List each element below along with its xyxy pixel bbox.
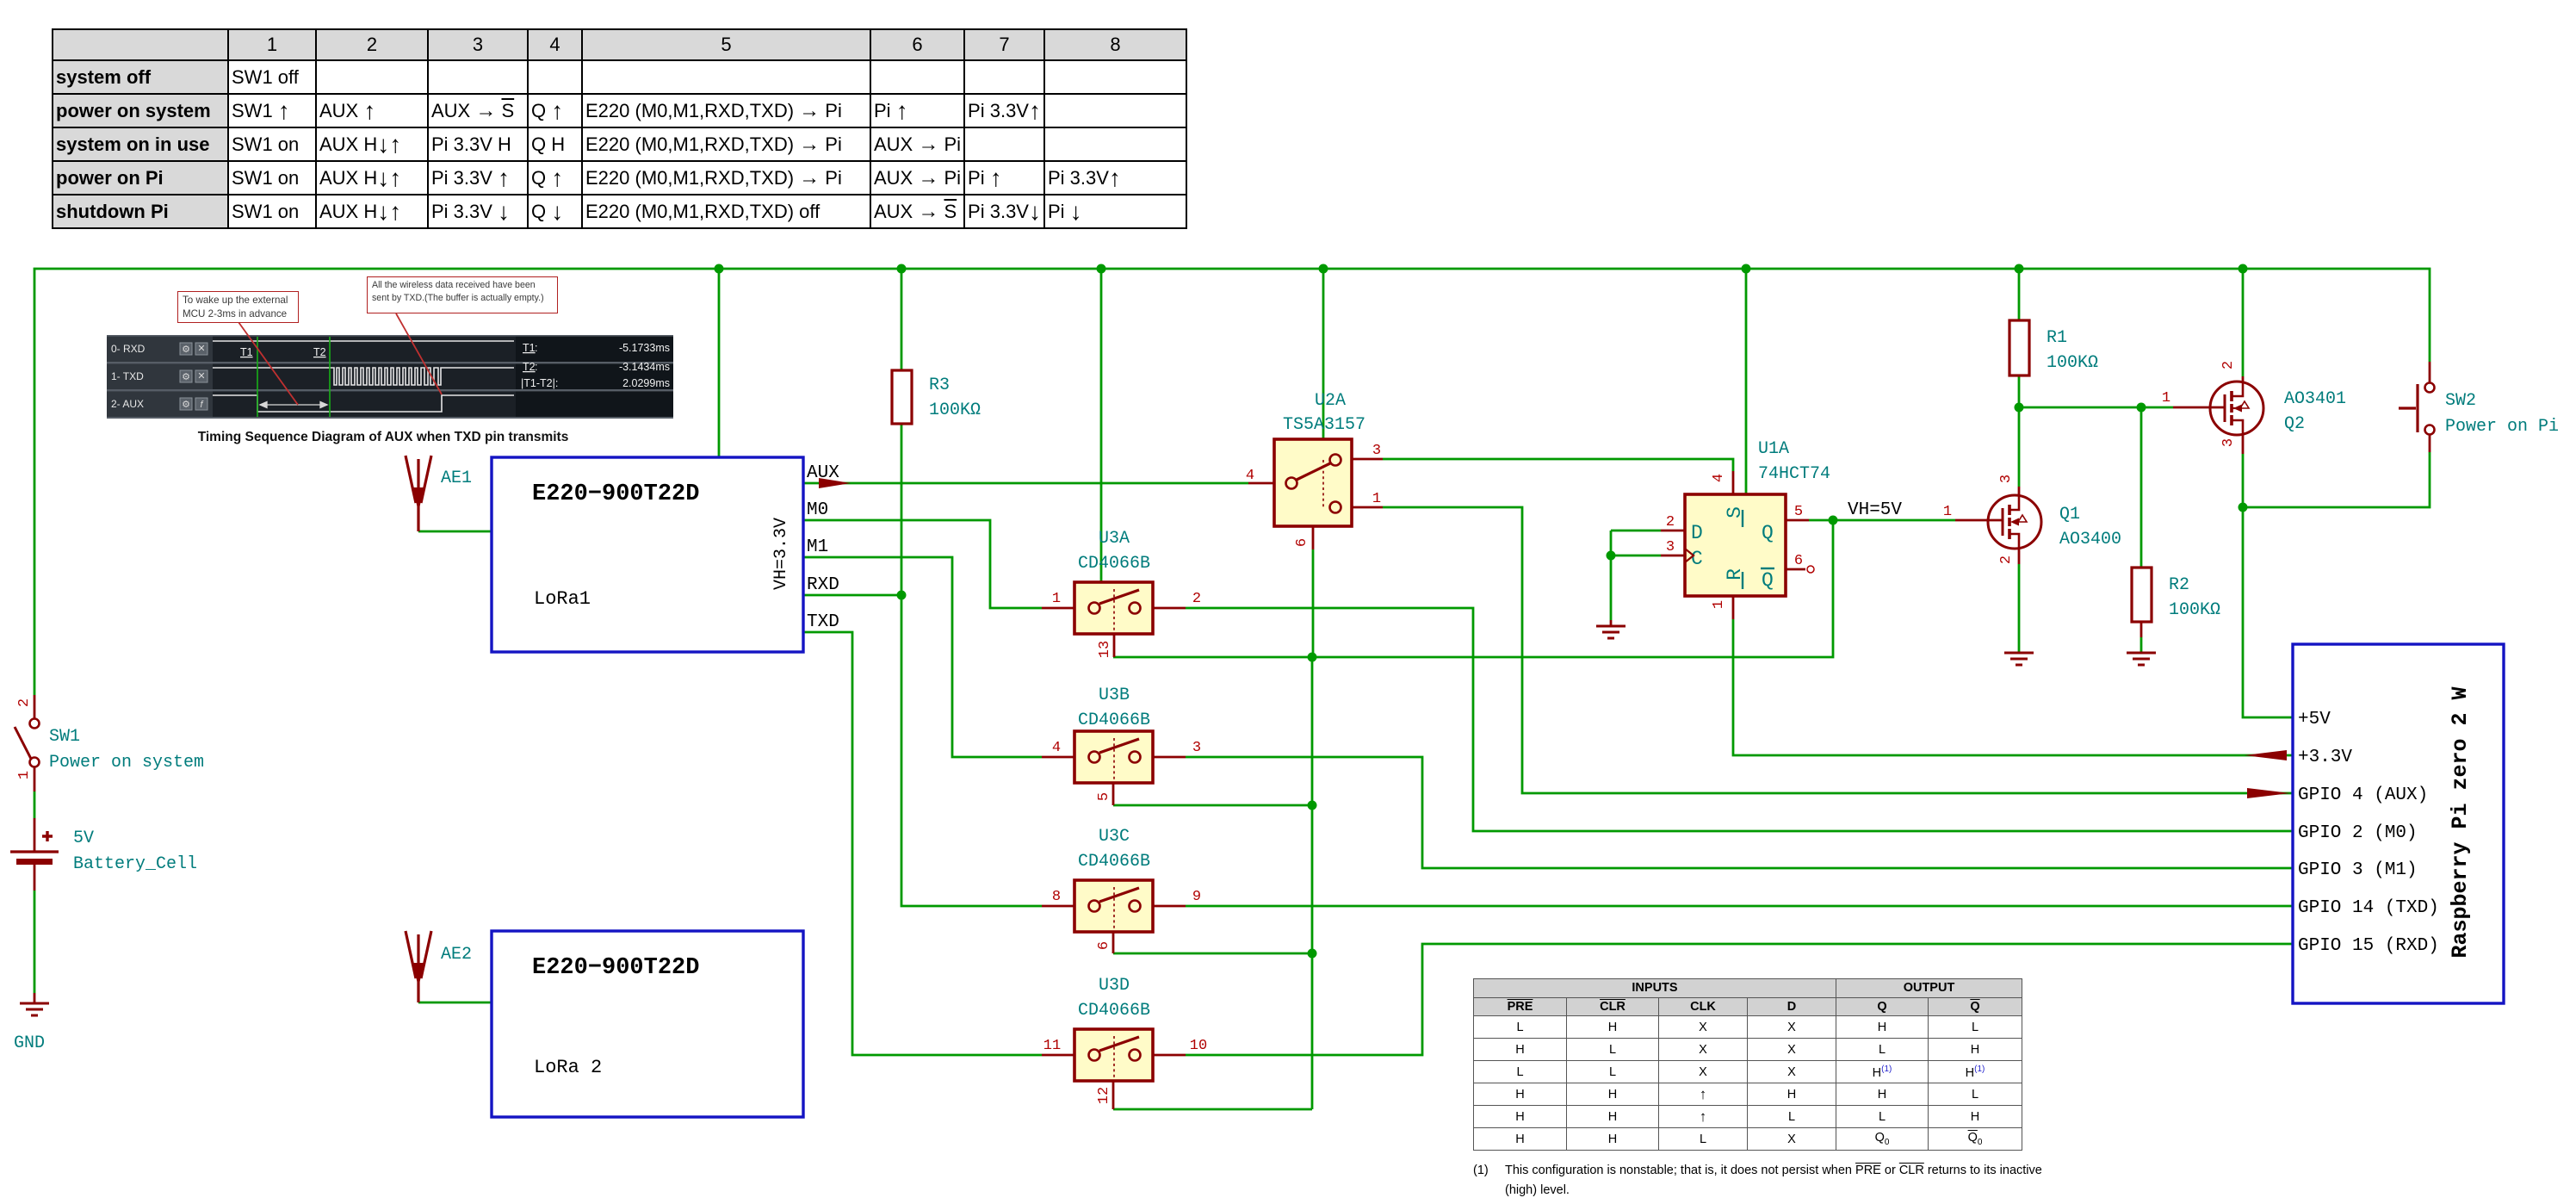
svg-text:1: 1 <box>16 771 33 779</box>
svg-text:GPIO 14 (TXD): GPIO 14 (TXD) <box>2298 898 2439 918</box>
svg-text:CD4066B: CD4066B <box>1078 554 1150 574</box>
wire U3D pin 10 to GPIO 15 (RXD) <box>1186 944 2293 1055</box>
svg-text:5: 5 <box>1794 504 1803 520</box>
wire rail to U2A supply <box>1322 269 1325 439</box>
svg-text:12: 12 <box>1096 1087 1112 1104</box>
pin lead SW1 bottom <box>34 767 36 791</box>
svg-text:100KΩ: 100KΩ <box>929 400 981 420</box>
wire U3B pin 5 to control net <box>1113 804 1312 807</box>
svg-text:Q2: Q2 <box>2284 414 2305 434</box>
svg-text:U3B: U3B <box>1099 686 1130 705</box>
svg-text:R3: R3 <box>929 375 950 395</box>
svg-text:LoRa1: LoRa1 <box>534 588 591 610</box>
pin lead Q2 source <box>2242 376 2245 383</box>
pin lead SW2 top <box>2429 362 2431 382</box>
svg-text:M0: M0 <box>807 500 828 520</box>
traces <box>213 341 514 412</box>
svg-text:RXD: RXD <box>807 575 839 595</box>
annotation callout 2 <box>367 276 558 313</box>
wire U3A pin 2 to GPIO 2 (M0) <box>1186 608 2293 831</box>
svg-text:1: 1 <box>2162 390 2170 407</box>
wire VH node down to R2 <box>2140 407 2143 568</box>
wire U3C pin 6 to control net <box>1113 953 1312 955</box>
annotation callout 1 <box>177 291 299 323</box>
pin lead U1A pin1 <box>1732 596 1735 619</box>
svg-text:3: 3 <box>1372 443 1381 459</box>
svg-text:U3D: U3D <box>1099 976 1130 996</box>
svg-text:GPIO 15 (RXD): GPIO 15 (RXD) <box>2298 936 2439 956</box>
node arrow out of +3.3V <box>2245 750 2287 760</box>
svg-text:3: 3 <box>1666 539 1675 555</box>
function table footnote <box>1473 1161 2162 1201</box>
svg-text:5: 5 <box>1096 792 1112 801</box>
antenna AE2 <box>406 931 472 1002</box>
svg-text:AO3400: AO3400 <box>2059 530 2121 549</box>
pin lead U3A pin2 <box>1153 607 1186 610</box>
svg-text:R1: R1 <box>2047 328 2067 348</box>
svg-text:Power on Pi: Power on Pi <box>2445 417 2559 437</box>
wire U3C pin 9 to GPIO 14 (TXD) <box>1186 905 2293 908</box>
wire RXD from LoRa1 to R3 net <box>803 594 901 597</box>
svg-text:1: 1 <box>1711 600 1727 609</box>
svg-text:2: 2 <box>1192 591 1201 607</box>
push button SW2 <box>2399 383 2559 438</box>
svg-text:GPIO 3 (M1): GPIO 3 (M1) <box>2298 860 2418 880</box>
svg-text:E220−900T22D: E220−900T22D <box>532 955 699 981</box>
pin lead Q1 drain <box>2018 487 2021 497</box>
pin lead U2A pin3 <box>1352 458 1383 461</box>
wire battery minus to GND <box>34 891 36 993</box>
svg-text:GPIO 2 (M0): GPIO 2 (M0) <box>2298 823 2418 843</box>
svg-text:TXD: TXD <box>807 612 839 632</box>
wire Q2 drain to +5V node <box>2242 454 2245 507</box>
svg-text:TS5A3157: TS5A3157 <box>1283 415 1365 435</box>
svg-text:AE1: AE1 <box>441 469 472 488</box>
pin lead battery bottom <box>34 865 36 891</box>
svg-text:8: 8 <box>1052 889 1061 905</box>
wire VH node to Q2 gate <box>2019 407 2173 409</box>
svg-text:U3C: U3C <box>1099 827 1130 847</box>
svg-text:Q: Q <box>1762 569 1774 592</box>
state table (system states) <box>52 28 1187 229</box>
battery BT 5V <box>10 829 197 874</box>
svg-text:SW2: SW2 <box>2445 391 2476 411</box>
svg-text:100KΩ: 100KΩ <box>2047 353 2098 373</box>
svg-text:CD4066B: CD4066B <box>1078 1001 1150 1021</box>
pin lead U3C pin6 <box>1112 932 1115 953</box>
svg-text:74HCT74: 74HCT74 <box>1758 464 1830 484</box>
pin lead Q2 drain <box>2242 434 2245 454</box>
Raspberry Pi zero 2 W block <box>2293 644 2504 1003</box>
annotation leader line 1 <box>238 322 298 405</box>
row separators <box>107 335 673 337</box>
switch SW1 <box>15 698 204 779</box>
wire rail to R3 <box>901 269 903 370</box>
wire rail to U3A supply <box>1100 269 1103 582</box>
pin lead U3A pin13 <box>1113 634 1116 657</box>
svg-text:+3.3V: +3.3V <box>2298 748 2352 767</box>
wire control net to Q output <box>1113 520 1833 657</box>
svg-text:4: 4 <box>1246 468 1254 484</box>
svg-text:E220−900T22D: E220−900T22D <box>532 481 699 507</box>
wire U3D pin 12 to control net <box>1113 1108 1312 1111</box>
svg-text:10: 10 <box>1190 1038 1207 1054</box>
pin lead U3B pin3 <box>1153 756 1186 759</box>
wire U1A D pin <box>1611 530 1661 532</box>
svg-text:D: D <box>1691 522 1703 544</box>
pin lead SW1 top <box>34 695 36 718</box>
svg-text:AE2: AE2 <box>441 945 472 965</box>
wire M0 from LoRa1 to U3A pin 1 <box>803 520 1042 608</box>
svg-text:Q1: Q1 <box>2059 505 2080 524</box>
ground symbol at U1A D/C <box>1596 626 1625 638</box>
wire U1A Q pin to Q1 gate <box>1809 519 1955 522</box>
pin lead U3B pin5 <box>1112 783 1115 805</box>
svg-text:Power on system: Power on system <box>49 753 204 773</box>
pin lead battery top <box>34 818 36 851</box>
pin lead U3C pin9 <box>1153 905 1186 908</box>
svg-text:U3A: U3A <box>1099 529 1130 549</box>
svg-text:4: 4 <box>1052 740 1061 756</box>
analog switch U3A CD4066B <box>1052 529 1201 658</box>
wire U2A pin 3 to U1A SET pin <box>1383 459 1733 471</box>
wire AUX from LoRa1 to U2A pin 4 <box>803 482 1248 485</box>
annotation leader line 2 <box>396 313 442 394</box>
pin lead U3D pin12 <box>1112 1081 1115 1109</box>
svg-text:+5V: +5V <box>2298 710 2331 729</box>
antenna AE1 <box>406 456 472 531</box>
E220 module LoRa1 <box>492 457 803 652</box>
svg-text:9: 9 <box>1192 889 1201 905</box>
svg-text:2: 2 <box>2220 361 2237 369</box>
svg-text:U1A: U1A <box>1758 439 1789 459</box>
pin lead U3D pin10 <box>1153 1054 1186 1057</box>
wire U1A C pin <box>1611 555 1661 557</box>
svg-text:C: C <box>1691 548 1703 570</box>
pin lead U1A ground stub <box>1610 620 1613 625</box>
wire AE2 antenna to LoRa2 <box>418 1002 492 1004</box>
E220 module LoRa2 <box>492 931 803 1117</box>
measure arrow between cursors <box>260 402 327 408</box>
svg-text:11: 11 <box>1043 1038 1061 1054</box>
svg-text:M1: M1 <box>807 537 828 557</box>
wire U2A pin 1 to GPIO 4 (AUX) <box>1383 507 2293 793</box>
pin lead U1A pin3 <box>1661 555 1685 557</box>
pin lead U2A pin6 <box>1312 526 1315 549</box>
svg-text:VH=3.3V: VH=3.3V <box>771 518 791 590</box>
wire TXD from LoRa1 to U3D pin 11 <box>803 632 1042 1055</box>
pin lead U2A pin1 <box>1352 506 1383 509</box>
svg-text:1: 1 <box>1372 491 1381 507</box>
transistor Q2 AO3401 <box>2162 361 2346 447</box>
wire U1A reset to Pi +3.3V <box>1733 619 2293 755</box>
svg-text:CD4066B: CD4066B <box>1078 711 1150 730</box>
svg-text:SW1: SW1 <box>49 727 80 747</box>
svg-text:3: 3 <box>1192 740 1201 756</box>
svg-text:3: 3 <box>2220 438 2237 447</box>
svg-text:GPIO 4 (AUX): GPIO 4 (AUX) <box>2298 785 2428 805</box>
pin lead R2 bottom <box>2140 622 2143 637</box>
analog switch U2A TS5A3157 <box>1246 391 1381 547</box>
wire 5V rail from battery top-left across to SW2 branch <box>34 269 2430 695</box>
transistor Q1 AO3400 <box>1943 475 2121 564</box>
pin lead U1A pin2 <box>1661 530 1685 532</box>
wire control net vertical <box>1311 657 1314 1109</box>
pin lead U1A pin4 <box>1732 471 1735 494</box>
svg-text:GND: GND <box>14 1033 45 1053</box>
channel buttons <box>180 343 207 410</box>
flip-flop U1A 74HCT74 <box>1666 439 1830 609</box>
svg-text:Battery_Cell: Battery_Cell <box>73 854 197 874</box>
wire U3B pin 3 to GPIO 3 (M1) <box>1186 757 2293 868</box>
wire R2 bottom to ground <box>2140 637 2143 652</box>
pin lead U1A pin5 <box>1786 519 1809 522</box>
svg-text:Raspberry Pi zero 2 W: Raspberry Pi zero 2 W <box>2448 686 2473 958</box>
ground symbol below R2 <box>2127 653 2156 665</box>
wire R1 bottom to Q1 drain <box>2018 375 2021 487</box>
svg-text:LoRa 2: LoRa 2 <box>534 1057 602 1078</box>
svg-text:6: 6 <box>1294 538 1310 547</box>
svg-text:AO3401: AO3401 <box>2284 389 2346 409</box>
analog switch U3D CD4066B <box>1043 976 1207 1104</box>
74HCT74 function table <box>1473 978 2022 1151</box>
wire SW2 bottom to +5V node to Pi +5V pin <box>2243 452 2430 717</box>
svg-text:6: 6 <box>1096 941 1112 950</box>
svg-text:3: 3 <box>1998 475 2015 483</box>
svg-text:2: 2 <box>1998 555 2015 564</box>
analog switch U3B CD4066B <box>1052 686 1201 801</box>
wire Q1 source to ground <box>2018 564 2021 652</box>
svg-text:Q: Q <box>1762 522 1774 544</box>
svg-text:1: 1 <box>1943 504 1952 520</box>
node arrow into GPIO 4 <box>2247 788 2290 798</box>
svg-text:13: 13 <box>1097 641 1113 658</box>
measurement panel <box>521 342 670 389</box>
svg-text:1: 1 <box>1052 591 1061 607</box>
wire SW1 to battery <box>34 791 36 818</box>
pin lead U3C pin8 <box>1042 905 1074 908</box>
svg-text:6: 6 <box>1794 553 1803 569</box>
svg-text:R2: R2 <box>2169 575 2189 595</box>
resistor R2 <box>2132 568 2220 622</box>
pin lead SW2 bottom <box>2429 435 2431 452</box>
LoRa1 pin name AUX + output arrow <box>807 463 851 488</box>
wire rail to R1 <box>2018 269 2021 320</box>
svg-text:4: 4 <box>1711 474 1727 482</box>
svg-text:100KΩ: 100KΩ <box>2169 600 2220 620</box>
pin lead Q1 source <box>2018 548 2021 564</box>
wire Q2 source to rail <box>2242 269 2245 376</box>
wire U2A pin 6 to control net <box>1312 549 1315 657</box>
ground symbol below Q1 <box>2004 653 2034 665</box>
svg-text:CD4066B: CD4066B <box>1078 852 1150 872</box>
caption <box>129 430 637 445</box>
wire D/C to ground <box>1610 531 1613 620</box>
pin lead GND stub <box>34 993 36 1002</box>
pin lead U2A pin4 <box>1248 482 1274 485</box>
timing diagram screenshot <box>107 335 673 419</box>
svg-text:2: 2 <box>1666 514 1675 531</box>
wire rail to U1A supply <box>1745 269 1748 494</box>
svg-text:5V: 5V <box>73 829 94 848</box>
svg-text:2: 2 <box>16 698 33 707</box>
wire M1 from LoRa1 to U3B pin 4 <box>803 557 1042 757</box>
pin lead U3A pin1 <box>1042 607 1074 610</box>
wire R3 bottom to RXD line and down to U3C pin 8 <box>901 424 1042 906</box>
resistor R3 <box>892 370 981 424</box>
analog switch U3C CD4066B <box>1052 827 1201 950</box>
svg-text:U2A: U2A <box>1315 391 1346 411</box>
svg-text:VH=5V: VH=5V <box>1848 500 1902 520</box>
pin lead U3B pin4 <box>1042 756 1074 759</box>
ground symbol GND battery <box>20 1003 49 1015</box>
T cursors <box>257 337 330 417</box>
resistor R1 <box>2009 320 2098 375</box>
pin lead U3D pin11 <box>1042 1054 1074 1057</box>
wire AE1 antenna to LoRa1 <box>418 531 492 533</box>
wire rail to LoRa1 VCC <box>718 269 721 457</box>
